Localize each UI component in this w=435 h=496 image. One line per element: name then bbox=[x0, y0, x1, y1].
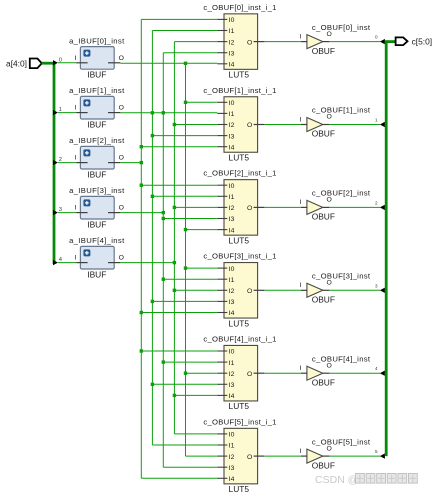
pin I4 of c_OBUF[5]_inst_i_1 bbox=[217, 476, 234, 483]
wire bus tap to a_IBUF[0]_inst input bbox=[58, 62, 76, 64]
svg-text:2: 2 bbox=[59, 157, 62, 163]
bus tap arrow bit 4 bbox=[53, 260, 58, 265]
pin I of c_OBUF[0]_inst bbox=[299, 33, 307, 41]
svg-text:O: O bbox=[327, 114, 332, 121]
pin I4 of c_OBUF[1]_inst_i_1 bbox=[217, 144, 234, 151]
svg-text:1: 1 bbox=[59, 107, 62, 113]
wire c_OBUF[2]_inst/O to output bus bit 2 bbox=[329, 206, 380, 208]
svg-text:a_IBUF[4]_inst: a_IBUF[4]_inst bbox=[69, 236, 125, 245]
output bus tap arrow bit 2 bbox=[380, 205, 385, 210]
svg-text:0: 0 bbox=[375, 35, 378, 40]
junction trunk 5 at c_OBUF[1]_inst_i_1 I0 bbox=[184, 101, 187, 104]
bus tap arrow bit 0 bbox=[53, 60, 58, 65]
svg-text:LUT5: LUT5 bbox=[229, 484, 250, 494]
svg-text:I0: I0 bbox=[229, 266, 235, 273]
svg-text:I: I bbox=[74, 255, 76, 262]
input bus wire from port a[4:0] bbox=[42, 62, 54, 264]
pin I4 of c_OBUF[2]_inst_i_1 bbox=[217, 227, 234, 234]
pin I1 of c_OBUF[0]_inst_i_1 bbox=[217, 28, 234, 35]
wire net a_IBUF[4] from a_IBUF[4]_inst/O to trunk 4 bbox=[120, 262, 174, 264]
svg-text:I: I bbox=[74, 155, 76, 162]
pin I of a_IBUF[4]_inst bbox=[74, 255, 87, 263]
svg-text:I4: I4 bbox=[229, 393, 235, 400]
svg-text:I1: I1 bbox=[229, 28, 235, 35]
pin I of a_IBUF[3]_inst bbox=[74, 205, 87, 213]
branch wire trunk 1 to c_OBUF[3]_inst_i_1 I4 bbox=[141, 312, 217, 314]
output bus tap arrow bit 4 bbox=[380, 371, 385, 376]
svg-text:O: O bbox=[327, 445, 332, 452]
junction trunk 3 at c_OBUF[2]_inst_i_1 I3 bbox=[162, 217, 165, 220]
buffer a_IBUF[2]_inst (IBUF) bbox=[69, 136, 125, 179]
buffer c_OBUF[5]_inst (OBUF) bbox=[307, 437, 371, 470]
branch wire trunk 4 to c_OBUF[0]_inst_i_1 I2 bbox=[174, 41, 217, 43]
pin O of c_OBUF[1]_inst bbox=[323, 114, 332, 125]
buffer c_OBUF[1]_inst (OBUF) bbox=[307, 106, 371, 139]
junction a_IBUF[2] at trunk 1 bbox=[140, 161, 143, 164]
svg-text:c_OBUF[3]_inst_i_1: c_OBUF[3]_inst_i_1 bbox=[203, 252, 276, 261]
svg-text:O: O bbox=[247, 454, 252, 461]
svg-text:c_OBUF[1]_inst: c_OBUF[1]_inst bbox=[312, 106, 371, 115]
pin I4 of c_OBUF[0]_inst_i_1 bbox=[217, 62, 234, 69]
svg-text:c_OBUF[4]_inst_i_1: c_OBUF[4]_inst_i_1 bbox=[203, 334, 276, 343]
junction trunk 2 at c_OBUF[4]_inst_i_1 I3 bbox=[151, 383, 154, 386]
svg-text:O: O bbox=[119, 155, 124, 162]
branch wire trunk 1 to c_OBUF[4]_inst_i_1 I0 bbox=[141, 350, 217, 352]
wire c_OBUF[5]_inst/O to output bus bit 5 bbox=[329, 455, 380, 457]
junction trunk 4 at c_OBUF[4]_inst_i_1 I4 bbox=[173, 394, 176, 397]
svg-text:OBUF: OBUF bbox=[312, 377, 335, 387]
svg-text:I: I bbox=[299, 282, 301, 289]
svg-text:I0: I0 bbox=[229, 183, 235, 190]
svg-text:I: I bbox=[299, 33, 301, 40]
svg-text:I0: I0 bbox=[229, 100, 235, 107]
wire net a_IBUF[3] from a_IBUF[3]_inst/O to trunk 3 bbox=[120, 212, 163, 214]
LUT c_OBUF[1]_inst_i_1 (LUT5) bbox=[203, 86, 276, 163]
pin O of a_IBUF[2]_inst bbox=[108, 155, 124, 163]
branch wire trunk 3 to c_OBUF[4]_inst_i_1 I1 bbox=[163, 361, 217, 363]
output bus wire c[5:0] bbox=[385, 42, 396, 457]
wire c_OBUF[1]_inst_i_1/O to c_OBUF[1]_inst/I bbox=[264, 124, 301, 126]
junction trunk 1 at c_OBUF[3]_inst_i_1 I4 bbox=[140, 311, 143, 314]
junction trunk 5 at c_OBUF[4]_inst_i_1 I2 bbox=[184, 372, 187, 375]
pin O of c_OBUF[2]_inst_i_1 bbox=[247, 205, 264, 212]
svg-text:I0: I0 bbox=[229, 349, 235, 356]
svg-text:2: 2 bbox=[375, 200, 378, 205]
junction trunk 3 at c_OBUF[4]_inst_i_1 I1 bbox=[162, 360, 165, 363]
pin I2 of c_OBUF[0]_inst_i_1 bbox=[217, 39, 234, 46]
svg-text:I4: I4 bbox=[229, 227, 235, 234]
wire c_OBUF[0]_inst_i_1/O to c_OBUF[0]_inst/I bbox=[264, 41, 301, 43]
svg-text:IBUF: IBUF bbox=[87, 170, 106, 180]
svg-text:I2: I2 bbox=[229, 39, 235, 46]
svg-text:O: O bbox=[247, 371, 252, 378]
wire net a_IBUF[0] from a_IBUF[0]_inst/O to LUT I4 row bbox=[120, 62, 217, 64]
wire c_OBUF[3]_inst/O to output bus bit 3 bbox=[329, 289, 380, 291]
junction trunk 1 at c_OBUF[1]_inst_i_1 I4 bbox=[140, 145, 143, 148]
wire c_OBUF[1]_inst/O to output bus bit 1 bbox=[329, 124, 380, 126]
svg-text:c[5:0]: c[5:0] bbox=[412, 36, 432, 46]
svg-text:O: O bbox=[119, 105, 124, 112]
pin I2 of c_OBUF[5]_inst_i_1 bbox=[217, 454, 234, 461]
svg-text:OBUF: OBUF bbox=[312, 129, 335, 139]
junction trunk 4 at c_OBUF[2]_inst_i_1 I2 bbox=[173, 206, 176, 209]
svg-text:c_OBUF[4]_inst: c_OBUF[4]_inst bbox=[312, 354, 371, 363]
pin O of c_OBUF[5]_inst_i_1 bbox=[247, 454, 264, 461]
pin O of a_IBUF[1]_inst bbox=[108, 105, 124, 113]
svg-text:I1: I1 bbox=[229, 194, 235, 201]
pin I1 of c_OBUF[2]_inst_i_1 bbox=[217, 194, 234, 201]
input port a[4:0] symbol bbox=[30, 59, 42, 69]
svg-text:a_IBUF[2]_inst: a_IBUF[2]_inst bbox=[69, 136, 125, 145]
svg-text:I1: I1 bbox=[229, 443, 235, 450]
svg-text:OBUF: OBUF bbox=[312, 46, 335, 56]
junction trunk 2 at c_OBUF[3]_inst_i_1 I3 bbox=[151, 300, 154, 303]
branch wire trunk 2 to c_OBUF[1]_inst_i_1 I3 bbox=[152, 135, 217, 137]
pin I2 of c_OBUF[4]_inst_i_1 bbox=[217, 371, 234, 378]
pin I2 of c_OBUF[3]_inst_i_1 bbox=[217, 288, 234, 295]
svg-text:I4: I4 bbox=[229, 476, 235, 483]
output port c[5:0] label bbox=[412, 36, 432, 46]
watermark CSDN bbox=[315, 474, 417, 487]
junction trunk 4 at c_OBUF[3]_inst_i_1 I2 bbox=[173, 289, 176, 292]
svg-text:OBUF: OBUF bbox=[312, 212, 335, 222]
svg-text:LUT5: LUT5 bbox=[229, 152, 250, 162]
svg-text:I2: I2 bbox=[229, 288, 235, 295]
junction trunk 2 at c_OBUF[1]_inst_i_1 I3 bbox=[151, 134, 154, 137]
bus tap arrow bit 1 bbox=[53, 110, 58, 115]
svg-text:5: 5 bbox=[375, 449, 378, 454]
buffer a_IBUF[4]_inst (IBUF) bbox=[69, 236, 125, 279]
pin O of c_OBUF[5]_inst bbox=[323, 445, 332, 456]
svg-text:a[4:0]: a[4:0] bbox=[6, 58, 27, 68]
svg-text:O: O bbox=[327, 197, 332, 204]
wire net a_IBUF[1] from a_IBUF[1]_inst/O to LUT1 I1 bbox=[120, 112, 217, 114]
wire net a_IBUF[2] from a_IBUF[2]_inst/O to trunk 1 bbox=[120, 162, 141, 164]
svg-text:a_IBUF[3]_inst: a_IBUF[3]_inst bbox=[69, 186, 125, 195]
svg-text:I0: I0 bbox=[229, 17, 235, 24]
wire c_OBUF[2]_inst_i_1/O to c_OBUF[2]_inst/I bbox=[264, 206, 301, 208]
pin I3 of c_OBUF[3]_inst_i_1 bbox=[217, 299, 234, 306]
wire c_OBUF[0]_inst/O to output bus bit 0 bbox=[329, 41, 380, 43]
buffer a_IBUF[3]_inst (IBUF) bbox=[69, 186, 125, 229]
pin I of a_IBUF[1]_inst bbox=[74, 105, 87, 113]
svg-text:I3: I3 bbox=[229, 50, 235, 57]
wire bus tap to a_IBUF[3]_inst input bbox=[58, 212, 76, 214]
wire bus tap to a_IBUF[1]_inst input bbox=[58, 112, 76, 114]
branch wire trunk 3 to c_OBUF[5]_inst_i_1 I3 bbox=[163, 466, 217, 468]
svg-text:I4: I4 bbox=[229, 310, 235, 317]
svg-text:I0: I0 bbox=[229, 432, 235, 439]
svg-text:I: I bbox=[299, 365, 301, 372]
svg-text:I3: I3 bbox=[229, 216, 235, 223]
pin I2 of c_OBUF[1]_inst_i_1 bbox=[217, 122, 234, 129]
pin O of c_OBUF[3]_inst bbox=[323, 280, 332, 291]
svg-text:c_OBUF[5]_inst_i_1: c_OBUF[5]_inst_i_1 bbox=[203, 417, 276, 426]
LUT c_OBUF[5]_inst_i_1 (LUT5) bbox=[203, 417, 276, 494]
svg-text:I: I bbox=[74, 55, 76, 62]
pin I of a_IBUF[2]_inst bbox=[74, 155, 87, 163]
branch wire trunk 3 to c_OBUF[3]_inst_i_1 I1 bbox=[163, 278, 217, 280]
wire c_OBUF[4]_inst_i_1/O to c_OBUF[4]_inst/I bbox=[264, 372, 301, 374]
svg-text:I: I bbox=[74, 105, 76, 112]
wire bus tap to a_IBUF[2]_inst input bbox=[58, 162, 76, 164]
branch wire trunk 4 to c_OBUF[5]_inst_i_1 I0 bbox=[174, 433, 217, 435]
branch wire trunk 1 to c_OBUF[0]_inst_i_1 I0 bbox=[141, 18, 217, 20]
svg-text:OBUF: OBUF bbox=[312, 460, 335, 470]
svg-text:3: 3 bbox=[375, 283, 378, 288]
svg-text:I1: I1 bbox=[229, 277, 235, 284]
svg-text:IBUF: IBUF bbox=[87, 220, 106, 230]
pin O of c_OBUF[2]_inst bbox=[323, 197, 332, 208]
pin I4 of c_OBUF[3]_inst_i_1 bbox=[217, 310, 234, 317]
pin I4 of c_OBUF[4]_inst_i_1 bbox=[217, 393, 234, 400]
branch wire trunk 4 to c_OBUF[1]_inst_i_1 I2 bbox=[174, 124, 217, 126]
svg-text:I1: I1 bbox=[229, 111, 235, 118]
buffer c_OBUF[2]_inst (OBUF) bbox=[307, 189, 371, 222]
svg-text:O: O bbox=[247, 288, 252, 295]
branch wire trunk 5 to c_OBUF[1]_inst_i_1 I0 bbox=[186, 101, 218, 103]
vertical trunk wire 5 net a_IBUF[0] bbox=[185, 63, 187, 456]
svg-text:I3: I3 bbox=[229, 133, 235, 140]
branch wire trunk 5 to c_OBUF[5]_inst_i_1 I2 bbox=[186, 455, 218, 457]
svg-text:I: I bbox=[74, 205, 76, 212]
pin I of c_OBUF[1]_inst bbox=[299, 116, 307, 124]
output port c[5:0] symbol bbox=[396, 37, 408, 45]
pin O of a_IBUF[0]_inst bbox=[108, 55, 124, 63]
branch wire trunk 4 to c_OBUF[4]_inst_i_1 I4 bbox=[174, 394, 217, 396]
svg-text:IBUF: IBUF bbox=[87, 70, 106, 80]
svg-text:I2: I2 bbox=[229, 205, 235, 212]
pin I2 of c_OBUF[2]_inst_i_1 bbox=[217, 205, 234, 212]
pin I0 of c_OBUF[4]_inst_i_1 bbox=[217, 349, 234, 356]
LUT c_OBUF[4]_inst_i_1 (LUT5) bbox=[203, 334, 276, 411]
svg-text:I2: I2 bbox=[229, 454, 235, 461]
branch wire trunk 5 to c_OBUF[3]_inst_i_1 I0 bbox=[186, 267, 218, 269]
svg-text:O: O bbox=[119, 205, 124, 212]
branch wire trunk 1 to c_OBUF[1]_inst_i_1 I4 bbox=[141, 146, 217, 148]
branch wire trunk 3 to c_OBUF[0]_inst_i_1 I3 bbox=[163, 52, 217, 54]
svg-text:I4: I4 bbox=[229, 62, 235, 69]
branch wire trunk 3 to c_OBUF[2]_inst_i_1 I3 bbox=[163, 218, 217, 220]
pin I1 of c_OBUF[5]_inst_i_1 bbox=[217, 443, 234, 450]
pin I1 of c_OBUF[3]_inst_i_1 bbox=[217, 277, 234, 284]
pin I0 of c_OBUF[5]_inst_i_1 bbox=[217, 432, 234, 439]
junction trunk 5 at c_OBUF[3]_inst_i_1 I0 bbox=[184, 266, 187, 269]
svg-text:IBUF: IBUF bbox=[87, 270, 106, 280]
junction a_IBUF[1] at trunk 2 bbox=[151, 111, 154, 114]
junction trunk 1 at c_OBUF[2]_inst_i_1 I0 bbox=[140, 184, 143, 187]
pin I0 of c_OBUF[0]_inst_i_1 bbox=[217, 17, 234, 24]
output bus tap arrow bit 3 bbox=[380, 288, 385, 293]
pin I0 of c_OBUF[2]_inst_i_1 bbox=[217, 183, 234, 190]
svg-text:a_IBUF[0]_inst: a_IBUF[0]_inst bbox=[69, 36, 125, 45]
svg-text:0: 0 bbox=[59, 57, 62, 63]
junction trunk 3 at c_OBUF[3]_inst_i_1 I1 bbox=[162, 278, 165, 281]
output bus tap arrow bit 5 bbox=[380, 453, 385, 458]
wire c_OBUF[4]_inst/O to output bus bit 4 bbox=[329, 372, 380, 374]
wire c_OBUF[5]_inst_i_1/O to c_OBUF[5]_inst/I bbox=[264, 455, 301, 457]
junction a_IBUF[0] at trunk 5 bbox=[184, 62, 187, 65]
pin I1 of c_OBUF[4]_inst_i_1 bbox=[217, 360, 234, 367]
pin O of c_OBUF[0]_inst bbox=[323, 31, 332, 42]
LUT c_OBUF[0]_inst_i_1 (LUT5) bbox=[203, 3, 276, 80]
svg-text:I2: I2 bbox=[229, 122, 235, 129]
svg-text:LUT5: LUT5 bbox=[229, 70, 250, 80]
svg-text:4: 4 bbox=[375, 366, 378, 371]
svg-text:I: I bbox=[299, 116, 301, 123]
svg-text:O: O bbox=[327, 31, 332, 38]
pin I of c_OBUF[3]_inst bbox=[299, 282, 307, 290]
vertical trunk wire 2 net a_IBUF[1] bbox=[151, 31, 153, 446]
svg-text:LUT5: LUT5 bbox=[229, 235, 250, 245]
svg-text:I: I bbox=[299, 448, 301, 455]
pin I of c_OBUF[4]_inst bbox=[299, 365, 307, 373]
svg-text:O: O bbox=[327, 362, 332, 369]
svg-text:I2: I2 bbox=[229, 371, 235, 378]
pin I0 of c_OBUF[1]_inst_i_1 bbox=[217, 100, 234, 107]
pin O of c_OBUF[4]_inst bbox=[323, 362, 332, 373]
pin I3 of c_OBUF[0]_inst_i_1 bbox=[217, 50, 234, 57]
svg-text:O: O bbox=[247, 122, 252, 129]
svg-text:O: O bbox=[247, 39, 252, 46]
output bus tap arrow bit 0 bbox=[380, 39, 385, 44]
input port a[4:0] label bbox=[6, 58, 27, 68]
junction trunk 4 at c_OBUF[1]_inst_i_1 I2 bbox=[173, 123, 176, 126]
pin O of c_OBUF[0]_inst_i_1 bbox=[247, 39, 264, 46]
pin I of a_IBUF[0]_inst bbox=[74, 55, 87, 63]
svg-text:O: O bbox=[327, 280, 332, 287]
branch wire trunk 2 to c_OBUF[4]_inst_i_1 I3 bbox=[152, 383, 217, 385]
svg-text:O: O bbox=[119, 255, 124, 262]
branch wire trunk 5 to c_OBUF[4]_inst_i_1 I2 bbox=[186, 372, 218, 374]
svg-text:1: 1 bbox=[375, 118, 378, 123]
pin I of c_OBUF[5]_inst bbox=[299, 448, 307, 456]
svg-text:c_OBUF[2]_inst_i_1: c_OBUF[2]_inst_i_1 bbox=[203, 169, 276, 178]
branch wire trunk 1 to c_OBUF[2]_inst_i_1 I0 bbox=[141, 184, 217, 186]
junction trunk 1 at c_OBUF[4]_inst_i_1 I0 bbox=[140, 349, 143, 352]
wire bus tap to a_IBUF[4]_inst input bbox=[58, 262, 76, 264]
pin I0 of c_OBUF[3]_inst_i_1 bbox=[217, 266, 234, 273]
svg-text:a_IBUF[1]_inst: a_IBUF[1]_inst bbox=[69, 86, 125, 95]
svg-text:IBUF: IBUF bbox=[87, 120, 106, 130]
svg-text:c_OBUF[0]_inst: c_OBUF[0]_inst bbox=[312, 23, 371, 32]
svg-text:I3: I3 bbox=[229, 465, 235, 472]
buffer c_OBUF[3]_inst (OBUF) bbox=[307, 272, 371, 305]
branch wire trunk 2 to c_OBUF[3]_inst_i_1 I3 bbox=[152, 300, 217, 302]
pin I3 of c_OBUF[5]_inst_i_1 bbox=[217, 465, 234, 472]
LUT c_OBUF[2]_inst_i_1 (LUT5) bbox=[203, 169, 276, 246]
bus tap arrow bit 3 bbox=[53, 210, 58, 215]
svg-text:c_OBUF[1]_inst_i_1: c_OBUF[1]_inst_i_1 bbox=[203, 86, 276, 95]
wire c_OBUF[3]_inst_i_1/O to c_OBUF[3]_inst/I bbox=[264, 289, 301, 291]
buffer a_IBUF[1]_inst (IBUF) bbox=[69, 86, 125, 129]
vertical trunk wire 3 net a_IBUF[3] bbox=[162, 53, 164, 468]
LUT c_OBUF[3]_inst_i_1 (LUT5) bbox=[203, 252, 276, 329]
svg-text:c_OBUF[3]_inst: c_OBUF[3]_inst bbox=[312, 272, 371, 281]
pin O of c_OBUF[3]_inst_i_1 bbox=[247, 288, 264, 295]
junction net at trunk 3 feeding c_OBUF[1]_inst_i_1 I1 bbox=[162, 111, 165, 114]
svg-text:LUT5: LUT5 bbox=[229, 318, 250, 328]
pin I3 of c_OBUF[1]_inst_i_1 bbox=[217, 133, 234, 140]
branch wire trunk 2 to c_OBUF[0]_inst_i_1 I1 bbox=[152, 30, 217, 32]
svg-text:c_OBUF[2]_inst: c_OBUF[2]_inst bbox=[312, 189, 371, 198]
svg-text:OBUF: OBUF bbox=[312, 295, 335, 305]
junction a_IBUF[4] at trunk 4 bbox=[173, 261, 176, 264]
branch wire trunk 4 to c_OBUF[2]_inst_i_1 I2 bbox=[174, 206, 217, 208]
pin I of c_OBUF[2]_inst bbox=[299, 199, 307, 207]
branch wire trunk 2 to c_OBUF[5]_inst_i_1 I1 bbox=[152, 444, 217, 446]
vertical trunk wire 1 net a_IBUF[2] bbox=[140, 19, 142, 478]
junction trunk 2 at c_OBUF[2]_inst_i_1 I1 bbox=[151, 195, 154, 198]
svg-text:I3: I3 bbox=[229, 299, 235, 306]
svg-text:CSDN @: CSDN @ bbox=[315, 474, 358, 486]
svg-text:c_OBUF[0]_inst_i_1: c_OBUF[0]_inst_i_1 bbox=[203, 3, 276, 12]
buffer a_IBUF[0]_inst (IBUF) bbox=[69, 36, 125, 79]
output bus tap arrow bit 1 bbox=[380, 122, 385, 127]
svg-text:I3: I3 bbox=[229, 382, 235, 389]
junction a_IBUF[3] at trunk 3 bbox=[162, 211, 165, 214]
pin I3 of c_OBUF[2]_inst_i_1 bbox=[217, 216, 234, 223]
buffer c_OBUF[4]_inst (OBUF) bbox=[307, 354, 371, 387]
vertical trunk wire 4 net a_IBUF[4] bbox=[173, 42, 175, 434]
svg-text:I1: I1 bbox=[229, 360, 235, 367]
buffer c_OBUF[0]_inst (OBUF) bbox=[307, 23, 371, 56]
bus tap arrow bit 2 bbox=[53, 160, 58, 165]
svg-text:I: I bbox=[299, 199, 301, 206]
pin O of a_IBUF[4]_inst bbox=[108, 255, 124, 263]
branch wire trunk 2 to c_OBUF[2]_inst_i_1 I1 bbox=[152, 195, 217, 197]
svg-text:O: O bbox=[247, 205, 252, 212]
pin O of a_IBUF[3]_inst bbox=[108, 205, 124, 213]
svg-text:LUT5: LUT5 bbox=[229, 401, 250, 411]
junction trunk 5 at c_OBUF[2]_inst_i_1 I4 bbox=[184, 228, 187, 231]
svg-text:I4: I4 bbox=[229, 144, 235, 151]
pin O of c_OBUF[4]_inst_i_1 bbox=[247, 371, 264, 378]
branch wire trunk 4 to c_OBUF[3]_inst_i_1 I2 bbox=[174, 289, 217, 291]
svg-text:O: O bbox=[119, 55, 124, 62]
branch wire trunk 5 to c_OBUF[2]_inst_i_1 I4 bbox=[186, 229, 218, 231]
pin O of c_OBUF[1]_inst_i_1 bbox=[247, 122, 264, 129]
branch wire trunk 1 to c_OBUF[5]_inst_i_1 I4 bbox=[141, 477, 217, 479]
pin I1 of c_OBUF[1]_inst_i_1 bbox=[217, 111, 234, 118]
svg-text:3: 3 bbox=[59, 207, 62, 213]
svg-text:c_OBUF[5]_inst: c_OBUF[5]_inst bbox=[312, 437, 371, 446]
pin I3 of c_OBUF[4]_inst_i_1 bbox=[217, 382, 234, 389]
